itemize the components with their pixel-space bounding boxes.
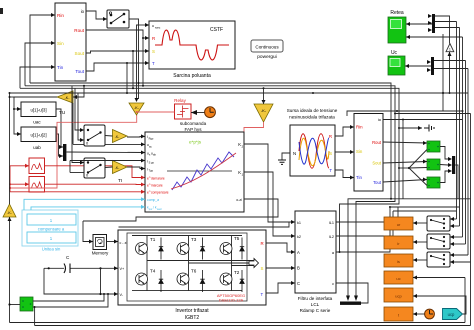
gain G5 TI (113, 161, 128, 185)
block B1 sarcina trifazata (55, 3, 86, 81)
red wire G2-relay cmd down-left (10, 115, 137, 188)
goto tag ucp cyan (443, 309, 463, 320)
to-workspace ur (384, 217, 413, 230)
svg-text:Tin: Tin (356, 175, 362, 180)
svg-text:compensare a: compensare a (38, 227, 65, 232)
svg-text:B: B (297, 266, 300, 271)
svg-text:IGBT2: IGBT2 (185, 315, 200, 321)
scope Uc (388, 50, 405, 75)
wire SB1 to ur (413, 222, 427, 224)
manual switch SW1 (107, 10, 129, 28)
right verticals bus (456, 22, 458, 220)
wire K2 to filter k1 (244, 144, 295, 222)
svg-text:Invertor trifazat: Invertor trifazat (175, 308, 209, 314)
wire sursa R to B2 Rin (335, 127, 354, 136)
red fcn RF1 (29, 158, 45, 174)
svg-text:is: is (397, 259, 400, 264)
wire SW1 out down to gain G2 (129, 19, 139, 99)
wire memory out to inverter c (107, 241, 119, 243)
svg-text:comp_a: comp_a (147, 198, 159, 202)
svg-text:R: R (152, 36, 155, 41)
svg-text:demarare: demarare (151, 176, 165, 180)
svg-text:Tin: Tin (57, 65, 64, 70)
svg-text:N: N (293, 151, 296, 156)
svg-text:-K-: -K- (261, 108, 267, 113)
svg-text:Tout: Tout (75, 69, 84, 74)
diode D3 (200, 238, 204, 260)
wire filter IL1 out (336, 207, 398, 222)
to-workspace t (384, 307, 413, 321)
svg-text:T1: T1 (150, 237, 156, 242)
switch SW3 (84, 158, 105, 178)
wire SB3 to is (413, 259, 427, 261)
svg-text:T2: T2 (234, 270, 240, 275)
fcn block uab (21, 127, 56, 150)
wire Rout to scope R (86, 30, 149, 38)
svg-text:IL2: IL2 (329, 235, 334, 239)
wire o-zi command loop to memory (83, 199, 278, 221)
svg-text:marcare: marcare (151, 183, 163, 187)
svg-text:nesinusoidala trifazata: nesinusoidala trifazata (289, 115, 335, 120)
red wire vertical left (9, 166, 11, 192)
svg-text:Sout: Sout (75, 51, 85, 56)
svg-text:R: R (261, 241, 264, 246)
svg-text:sarc: sarc (157, 207, 163, 211)
plot inside FAP (167, 170, 232, 172)
cyan wire k_por (31, 207, 145, 210)
wire Rin input (30, 15, 55, 83)
svg-text:Tgo: Tgo (149, 169, 154, 173)
wire B2 Sout to GB2 (383, 162, 427, 164)
bus line C to G3 (263, 88, 265, 104)
wire Tout to scope T (86, 63, 149, 71)
svg-text:T3: T3 (191, 237, 197, 242)
wire into ucp from tag (413, 296, 466, 314)
wire inverter R to filter A (266, 243, 295, 252)
wire G6 in from bottom (9, 217, 11, 323)
wires into SB right sides (450, 218, 457, 220)
sursa ideala block (287, 108, 338, 176)
powergui block (251, 40, 283, 60)
wires into M2 from right (434, 60, 466, 62)
svg-text:k1: k1 (297, 221, 301, 225)
svg-text:T: T (329, 168, 332, 173)
bus line C (20, 88, 399, 252)
inverter block (118, 230, 266, 321)
svg-text:Filtru de interfata: Filtru de interfata (298, 296, 333, 301)
wire inverter S to filter B (266, 267, 295, 269)
svg-text:IL1: IL1 (329, 221, 334, 225)
to-workspace ir (384, 236, 413, 249)
diode D1 (159, 238, 163, 260)
wire io down right (402, 120, 404, 199)
black bar sink (340, 296, 368, 305)
wire cap loop bottom (44, 268, 101, 294)
svg-text:o-zi: o-zi (236, 198, 242, 202)
switch SB2 (427, 234, 450, 249)
wire SW3 to G5 (105, 166, 113, 169)
ground GND2 (398, 125, 434, 132)
wire filter a out (336, 207, 390, 252)
wire Sout to scope S (86, 51, 149, 53)
svg-text:Sursa ideala de tensiune: Sursa ideala de tensiune (287, 108, 338, 113)
svg-text:-K-: -K- (134, 106, 140, 110)
bus line D (10, 93, 444, 111)
svg-text:ucp: ucp (395, 294, 402, 299)
wire Rout down to bus (142, 38, 144, 86)
svg-text:Rgo: Rgo (149, 136, 154, 140)
mux M2 (427, 57, 434, 75)
svg-text:CSTF: CSTF (210, 27, 223, 33)
pink wire relay out to G2/G3 net (137, 111, 175, 113)
gain TU (points left) (57, 91, 73, 116)
red wire into RF2 (10, 183, 29, 185)
svg-text:k2: k2 (297, 235, 301, 239)
switch SB1 (427, 216, 450, 231)
wire into Retea in1 (406, 23, 432, 25)
wire G5 to FAP i_Tgo (127, 167, 145, 169)
FAP hys block (145, 132, 244, 212)
wire G6 out up (9, 93, 11, 204)
wire M4 out (455, 165, 458, 199)
svg-text:-K-: -K- (115, 135, 120, 139)
svg-text:sarc: sarc (155, 25, 161, 29)
inverter rails (132, 236, 242, 291)
svg-text:S go: S go (149, 161, 155, 165)
wire clock2 to t (413, 313, 425, 315)
svg-text:Sarcina poluanta: Sarcina poluanta (173, 73, 211, 79)
svg-text:c: c (332, 282, 334, 286)
wire Tout down to bus (126, 63, 128, 93)
wire filter c out (336, 283, 368, 296)
red wire third to FAP (10, 191, 145, 193)
wires GB outs to M4 (440, 147, 448, 160)
svg-text:-K-: -K- (115, 166, 120, 170)
wire into G3 from top (262, 100, 266, 104)
svg-text:C: C (297, 281, 300, 286)
gain G6 up (3, 204, 16, 217)
transistor T6 (177, 269, 197, 286)
svg-text:T5: T5 (234, 236, 240, 241)
svg-text:e*p*js: e*p*js (189, 140, 202, 145)
svg-text:R: R (329, 134, 332, 139)
red wire RF2 to FAP (45, 183, 146, 185)
svg-text:uc: uc (396, 276, 400, 281)
svg-text:Relay: Relay (174, 98, 186, 103)
svg-text:T: T (152, 61, 155, 66)
wire Tin input (20, 67, 55, 88)
diode D5 (240, 238, 244, 260)
wire into uc (413, 277, 465, 279)
svg-text:u[1]-u[2]: u[1]-u[2] (30, 133, 46, 138)
block B2 masura retea (354, 114, 383, 192)
white arrow tag (249, 259, 259, 268)
svg-text:A: A (297, 250, 300, 255)
svg-text:Memory: Memory (92, 251, 109, 256)
diode D2 (240, 270, 244, 292)
svg-text:Sin: Sin (57, 41, 64, 46)
wire inverter T to filter C (266, 283, 295, 293)
wire io B2 out right (383, 119, 463, 121)
wire M3 out to FAP u_ab (66, 151, 145, 154)
junctions on bus (83, 85, 85, 87)
wire uab out to mux M3 (56, 134, 63, 156)
svg-text:S: S (329, 151, 332, 156)
clock1 (205, 107, 216, 118)
wire TU out to fcn inputs (14, 97, 57, 134)
nested mid horizontals (390, 206, 460, 208)
wire into Uc (405, 65, 431, 67)
relay subcomanda (174, 98, 206, 132)
svg-text:-K-: -K- (7, 211, 12, 215)
diode D6 (200, 270, 204, 292)
bus line B (25, 86, 395, 297)
switch SB3 (427, 252, 450, 267)
svg-text:u[1]-u[3]: u[1]-u[3] (30, 108, 46, 113)
edge stub top-left (0, 8, 3, 14)
wire K1 to filter k2 (244, 172, 295, 236)
memory block (92, 235, 109, 256)
mux M1 (428, 14, 435, 33)
wire sursa S to B2 Sin (335, 151, 354, 153)
green meas GB3 (427, 177, 440, 188)
wire clock1 to relay (191, 112, 205, 114)
svg-text:TU: TU (59, 110, 66, 116)
wire G4 to FAP i_Rgo (127, 135, 145, 138)
svg-text:T: T (261, 292, 264, 297)
wire branch to uac input (14, 108, 21, 110)
wire memory in from command line (83, 221, 93, 242)
capacitor C (44, 255, 118, 273)
svg-text:powergui: powergui (257, 54, 276, 60)
diode D4 (159, 270, 163, 292)
mux M3 (63, 144, 66, 161)
transistor T4 (136, 269, 156, 286)
svg-text:T4: T4 (150, 269, 156, 274)
wire SW1 branch to scope u (139, 24, 150, 26)
bus line A (30, 83, 391, 297)
svg-text:1: 1 (449, 47, 451, 51)
wire uac out to mux M3 (56, 109, 63, 147)
svg-text:Sin: Sin (356, 149, 363, 154)
svg-text:Tout: Tout (373, 180, 382, 185)
svg-text:FAP hys: FAP hys (184, 127, 202, 132)
wire TU input from bus (73, 86, 84, 97)
ground GND1 (278, 153, 290, 164)
wire B2 Tout to GB3 (383, 180, 427, 183)
wire Sout down to bus (132, 51, 134, 88)
wire long to FAP u_ac (73, 143, 145, 145)
svg-text:Sout: Sout (372, 161, 381, 166)
svg-text:Retea: Retea (390, 10, 404, 16)
svg-text:subcomanda: subcomanda (180, 121, 207, 126)
fan junction wires (398, 150, 427, 186)
cyan group box (22, 210, 78, 252)
to-workspace uc (384, 271, 413, 284)
wire into GB4 (10, 304, 21, 306)
svg-text:Uc: Uc (391, 50, 398, 56)
green voltmeter GB4 (20, 297, 33, 311)
green meas GB2 (427, 159, 440, 170)
gain G4 (113, 130, 128, 143)
transistor T5 (231, 236, 233, 291)
svg-text:Rout: Rout (372, 140, 382, 145)
svg-text:-K-: -K- (65, 96, 71, 100)
red fcn RF2 (29, 177, 45, 193)
wire SW3 inputs (72, 86, 84, 163)
svg-text:uac: uac (33, 120, 41, 125)
wires GB4 to cap loop (33, 294, 104, 301)
wire SW2 to G4 (105, 135, 113, 138)
transistor T3 (188, 236, 190, 291)
svg-text:V+: V+ (120, 267, 126, 271)
to-workspace is (384, 254, 413, 267)
fcn block uac (21, 102, 56, 125)
wire k1 feed lower (119, 222, 290, 227)
svg-text:uab: uab (33, 145, 41, 150)
svg-text:Unitea sin: Unitea sin (42, 247, 61, 252)
green meas GB1 (427, 141, 440, 152)
bottom long wires (10, 322, 466, 324)
svg-text:u: u (152, 24, 154, 28)
wire SB2 to ir (413, 241, 427, 243)
junction dots bus verticals (390, 82, 392, 84)
horizontals right top (347, 111, 463, 116)
transistor T1 (146, 236, 148, 291)
red wire into RF1 (10, 165, 29, 167)
svg-text:Rdamp C serie: Rdamp C serie (300, 308, 331, 313)
wire io to SW1 (86, 11, 107, 19)
svg-text:DSEI120-12A: DSEI120-12A (219, 298, 244, 303)
gain G3 down (254, 104, 273, 122)
wire Sin input (25, 43, 55, 86)
svg-text:T6: T6 (191, 269, 197, 274)
wire filter IL2 out (336, 211, 393, 236)
wire G1 input from below (449, 52, 451, 93)
svg-text:Rout: Rout (74, 28, 84, 33)
svg-text:S: S (152, 49, 155, 54)
svg-text:TI: TI (118, 178, 122, 184)
svg-text:ucp: ucp (448, 312, 455, 317)
phase tap lines (147, 261, 254, 266)
filter LCL block (295, 211, 336, 313)
scope Sarcina poluanta (149, 21, 235, 79)
gain G1 up (446, 44, 454, 52)
mux M4 (448, 156, 455, 174)
switch SW2 (84, 125, 105, 146)
svg-text:c - zl: c - zl (120, 241, 128, 245)
svg-text:Rin: Rin (57, 13, 64, 18)
wire SW2 inputs from bus (75, 88, 84, 130)
gain G2 down (129, 103, 144, 115)
transistor T2 (220, 270, 240, 285)
clock2 (425, 309, 435, 319)
horizontal y198 right (391, 198, 471, 200)
wire into Retea in2 (406, 36, 463, 38)
svg-text:Continuous: Continuous (255, 45, 279, 50)
scope Retea (388, 10, 406, 43)
wires into M1 from right (435, 16, 450, 44)
svg-text:compensare: compensare (151, 190, 169, 194)
wire B2 Rout to GB1 (383, 142, 427, 143)
wire sursa T to B2 Tin (335, 170, 354, 178)
cyan wire comp_a (24, 199, 145, 210)
to-workspace ucp (384, 288, 413, 302)
svg-text:S: S (261, 266, 264, 271)
red wire RF1 to FAP (45, 166, 146, 178)
svg-text:LCL: LCL (311, 302, 320, 307)
svg-text:Rin: Rin (356, 125, 363, 130)
